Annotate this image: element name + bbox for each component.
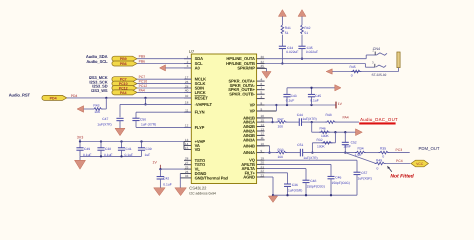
- ground arrow under SPKR/HP: [262, 72, 271, 79]
- wire PDM line: [303, 152, 357, 154]
- R35 value 0: [382, 155, 384, 159]
- C51 value: [303, 156, 317, 160]
- resistor R32: [322, 142, 333, 145]
- svg-text:33: 33: [185, 174, 189, 178]
- Not Fitted leader line: [387, 166, 392, 172]
- resistor R35: [379, 151, 390, 154]
- net label I2S3_MCK text: [89, 75, 108, 80]
- svg-text:1uF(X5R): 1uF(X5R): [358, 177, 372, 181]
- wire PC12 to chip: [137, 87, 191, 89]
- wire R41 stem top: [281, 16, 283, 25]
- R42 value 51: [304, 31, 308, 35]
- svg-text:C45: C45: [315, 94, 321, 98]
- net label I2S3_WS text: [91, 88, 108, 93]
- svg-text:15: 15: [185, 146, 189, 150]
- svg-text:VP: VP: [250, 103, 256, 108]
- ground arrow under DGND: [175, 188, 187, 196]
- wire VP join: [257, 104, 278, 111]
- svg-text:1uF(X7R): 1uF(X7R): [302, 117, 316, 121]
- power arrow above R42: [298, 10, 306, 17]
- svg-text:PB9: PB9: [139, 55, 146, 59]
- svg-text:PD4: PD4: [71, 94, 78, 98]
- svg-text:C52: C52: [351, 140, 357, 144]
- wire R41 to C34: [281, 35, 283, 47]
- resistor R43: [93, 108, 107, 111]
- C49 designator: [84, 147, 90, 151]
- ground arrow under C42: [154, 188, 166, 196]
- C39 value: [145, 153, 151, 157]
- svg-text:PB9: PB9: [120, 57, 127, 61]
- C47 designator: [102, 117, 108, 121]
- svg-text:PA4: PA4: [343, 116, 349, 120]
- wire VP rail: [265, 104, 336, 106]
- wire DGND join: [180, 174, 184, 188]
- svg-text:0: 0: [382, 155, 384, 159]
- net label PB9: [139, 55, 146, 59]
- svg-text:GND/Thermal Pad: GND/Thermal Pad: [195, 175, 229, 180]
- svg-text:Audio_RST: Audio_RST: [9, 93, 31, 98]
- jack CN4 tip contact: [375, 52, 387, 56]
- resistor R46: [319, 131, 330, 134]
- svg-text:CN4: CN4: [373, 47, 380, 51]
- net label I2S3_SCK text: [89, 79, 107, 84]
- power arrow R43 left: [77, 106, 93, 113]
- wire SDA: [137, 58, 191, 60]
- svg-text:AIN3A: AIN3A: [243, 137, 255, 142]
- svg-text:SPKR/HP: SPKR/HP: [237, 65, 255, 70]
- svg-text:PB6: PB6: [139, 59, 146, 63]
- svg-text:1uF (X7R): 1uF (X7R): [141, 122, 156, 126]
- port PDM bidirectional: [411, 160, 428, 167]
- svg-text:7: 7: [261, 86, 263, 90]
- svg-text:Audio_SCL: Audio_SCL: [86, 59, 108, 64]
- svg-text:0: 0: [377, 166, 379, 170]
- svg-text:11: 11: [261, 136, 264, 140]
- svg-text:0.022uF: 0.022uF: [306, 50, 318, 54]
- svg-text:9: 9: [261, 149, 263, 153]
- svg-text:PDM_OUT: PDM_OUT: [419, 146, 440, 151]
- capacitor C52: [342, 132, 349, 154]
- svg-text:51: 51: [285, 31, 289, 35]
- power net label 1V at VL: [152, 160, 160, 169]
- jack CN4 body: [397, 52, 400, 68]
- R47 designator: [278, 117, 284, 121]
- capacitor C43: [283, 88, 290, 105]
- wire PA4 to chip: [137, 91, 191, 93]
- R41 value 51: [285, 31, 289, 35]
- capacitor C35: [298, 46, 305, 48]
- U7 left pins with names and numbers: [184, 55, 229, 180]
- C45 designator: [315, 94, 321, 98]
- resistor R47: [276, 121, 287, 124]
- svg-text:51: 51: [304, 31, 308, 35]
- svg-text:15: 15: [261, 118, 265, 122]
- resistor R49: [375, 162, 386, 165]
- svg-text:12: 12: [261, 132, 265, 136]
- C44 value: [302, 117, 316, 121]
- svg-text:R45: R45: [350, 65, 356, 69]
- C49 value: [83, 153, 91, 157]
- svg-text:3: 3: [261, 95, 263, 99]
- wire VP cap top rail: [287, 87, 335, 89]
- C36 designator: [292, 183, 298, 187]
- svg-text:5: 5: [261, 91, 263, 95]
- power net label 3V3 at VA rail: [77, 135, 84, 141]
- svg-text:R49: R49: [376, 158, 382, 162]
- svg-text:AIN4A: AIN4A: [243, 150, 255, 155]
- C52 designator: [351, 140, 357, 144]
- capacitor C42: [157, 169, 165, 188]
- svg-text:100K: 100K: [317, 145, 326, 149]
- capacitor C38: [97, 142, 104, 157]
- capacitor C46 with wire: [265, 164, 335, 195]
- jack part number ST-225-02: [372, 73, 387, 77]
- svg-text:32: 32: [261, 60, 265, 64]
- power arrow sleeve left: [326, 69, 332, 74]
- capacitor C49: [76, 142, 83, 157]
- capacitor C34: [279, 46, 286, 48]
- net label PC3: [396, 148, 403, 152]
- jack CN4 ring contact: [375, 64, 386, 68]
- svg-text:VCC: VCC: [416, 162, 424, 166]
- C57 value: [358, 177, 372, 181]
- wire C44 to R48: [302, 121, 327, 123]
- svg-text:1uF(X7R): 1uF(X7R): [97, 122, 111, 126]
- svg-text:C42: C42: [163, 176, 169, 180]
- wire AIN4 join: [257, 146, 278, 154]
- wire bias line1: [312, 131, 356, 133]
- svg-text:U7: U7: [189, 49, 195, 54]
- R49 value 0: [377, 166, 379, 170]
- svg-text:PC10: PC10: [139, 80, 148, 84]
- wire jack sleeve: [332, 68, 398, 72]
- svg-text:28: 28: [185, 157, 189, 161]
- R35 designator: [380, 146, 386, 150]
- svg-text:35: 35: [261, 64, 265, 68]
- svg-text:150pF(C0G): 150pF(C0G): [332, 181, 350, 185]
- svg-text:PC4: PC4: [396, 159, 403, 163]
- U7 part name CS43L22: [189, 186, 207, 191]
- svg-text:R46: R46: [320, 126, 326, 130]
- C48 designator: [310, 179, 316, 183]
- net label PA4: [139, 88, 145, 92]
- svg-text:C46: C46: [335, 175, 341, 179]
- net label Audio_SDA text: [86, 54, 108, 59]
- svg-text:I2S3_WS: I2S3_WS: [91, 88, 108, 93]
- net label Audio_DAC_OUT: [360, 117, 398, 122]
- svg-text:PD4: PD4: [50, 96, 57, 100]
- svg-text:R32: R32: [317, 138, 323, 142]
- svg-text:100: 100: [278, 155, 284, 159]
- RESET pin overline: [195, 95, 206, 97]
- svg-text:PA4: PA4: [139, 88, 145, 92]
- wire R35 to PC3: [389, 152, 410, 154]
- capacitor C44: [299, 118, 301, 126]
- svg-text:10nF: 10nF: [343, 144, 351, 148]
- C39 designator: [146, 147, 152, 151]
- svg-text:AGND: AGND: [243, 175, 255, 180]
- svg-text:1V: 1V: [338, 102, 343, 106]
- C44 designator: [297, 113, 303, 117]
- power arrow above R41: [278, 10, 286, 17]
- svg-text:PA4: PA4: [120, 91, 127, 95]
- C34 value: [286, 50, 298, 54]
- wire bias line2: [311, 132, 335, 154]
- wire SPKR/HP down: [257, 68, 267, 71]
- C41 value: [125, 153, 133, 157]
- R47 value 100: [278, 124, 284, 128]
- net label I2S3_SD text: [92, 84, 108, 89]
- R48 designator: [326, 113, 332, 117]
- svg-text:C49: C49: [84, 147, 90, 151]
- svg-text:1V: 1V: [152, 160, 157, 164]
- svg-text:CS43L22: CS43L22: [189, 186, 207, 191]
- wire HP/LINE_OUTB to jack: [265, 64, 375, 68]
- wire A0: [166, 67, 192, 69]
- svg-text:R41: R41: [285, 26, 291, 30]
- power bar 1V: [336, 102, 343, 109]
- svg-text:C36: C36: [292, 183, 298, 187]
- net label PD4: [71, 94, 78, 98]
- wire Audio_RST to RESET pin: [67, 97, 192, 99]
- svg-text:PB6: PB6: [120, 62, 127, 66]
- svg-text:0.1uF: 0.1uF: [163, 183, 171, 187]
- net label PC12: [139, 84, 148, 88]
- power arrow bias right: [356, 129, 363, 136]
- svg-text:PC3: PC3: [396, 148, 403, 152]
- C45 value: [310, 99, 318, 103]
- wire SCL: [137, 63, 191, 65]
- svg-text:SPKR_OUTB-: SPKR_OUTB-: [229, 92, 255, 97]
- svg-text:VD: VD: [195, 147, 201, 152]
- resistor R33: [276, 151, 287, 154]
- svg-text:C51: C51: [297, 143, 303, 147]
- wire R49 to port: [385, 163, 411, 165]
- wire C35 to OUTA line: [301, 49, 303, 60]
- svg-text:100: 100: [278, 124, 284, 128]
- wire R47 to C44: [286, 121, 299, 123]
- C46 designator: [335, 175, 341, 179]
- C42 value: [163, 183, 171, 187]
- R33 value 100: [278, 155, 284, 159]
- C50 designator: [140, 117, 146, 121]
- resistor R34: [355, 151, 366, 154]
- net label Audio_RST text: [9, 93, 31, 98]
- svg-text:0.022uF: 0.022uF: [286, 50, 298, 54]
- svg-text:C48: C48: [310, 179, 316, 183]
- C36 value: [288, 188, 302, 192]
- capacitor C36 with wire: [265, 173, 291, 195]
- C38 designator: [105, 147, 111, 151]
- ground arrow under C47: [115, 128, 125, 135]
- svg-text:0: 0: [351, 74, 353, 78]
- wire R42 stem top: [301, 16, 303, 25]
- svg-text:C39: C39: [146, 147, 152, 151]
- wire VL: [159, 168, 184, 170]
- C47 value: [97, 122, 111, 126]
- port PC10: [112, 81, 137, 86]
- svg-text:FLYN: FLYN: [195, 110, 205, 115]
- op-amp U7 CS43L22 audio DAC body: [191, 54, 256, 184]
- svg-text:C47: C47: [102, 117, 108, 121]
- R32 designator: [317, 138, 323, 142]
- red underline bar: [359, 122, 395, 124]
- R43 value 10K: [94, 110, 101, 114]
- wire PC7 to chip: [137, 78, 191, 80]
- svg-text:10K: 10K: [94, 110, 101, 114]
- svg-text:LRCK: LRCK: [195, 90, 206, 95]
- capacitor C41: [118, 142, 125, 157]
- net label PC4: [396, 159, 403, 163]
- port PB9: [112, 56, 137, 61]
- svg-text:PC7: PC7: [139, 75, 146, 79]
- wire AGND down: [265, 177, 275, 196]
- ground arrow left rail: [75, 156, 86, 169]
- svg-text:R43: R43: [93, 103, 99, 107]
- svg-text:Audio_DAC_OUT: Audio_DAC_OUT: [360, 117, 398, 122]
- svg-text:Not Fitted: Not Fitted: [390, 174, 414, 180]
- capacitor C39: [138, 142, 145, 157]
- svg-text:A0: A0: [195, 65, 201, 70]
- Not Fitted note: [390, 174, 414, 180]
- svg-text:R35: R35: [380, 146, 386, 150]
- svg-text:R42: R42: [304, 26, 310, 30]
- jack pin number 1: [372, 49, 374, 53]
- power arrow A0 ground: [160, 65, 166, 71]
- R34 designator: [358, 146, 364, 150]
- svg-text:R34: R34: [358, 146, 364, 150]
- wire R33 to C51: [286, 152, 300, 154]
- C57 designator: [361, 171, 367, 175]
- net label PC7: [139, 75, 146, 79]
- port PA4: [112, 90, 137, 95]
- C51 designator: [297, 143, 303, 147]
- svg-text:25: 25: [185, 165, 189, 169]
- C50 value: [141, 122, 156, 126]
- svg-text:1uF(X7R): 1uF(X7R): [303, 156, 317, 160]
- port PC12: [112, 86, 137, 91]
- svg-text:150pF(C0G): 150pF(C0G): [307, 185, 325, 189]
- svg-text:4: 4: [261, 77, 263, 81]
- R34 value 1.5K: [355, 153, 363, 157]
- svg-text:C38: C38: [105, 147, 111, 151]
- svg-text:0.1uF: 0.1uF: [310, 99, 318, 103]
- svg-text:1uF: 1uF: [145, 153, 151, 157]
- wire AIN1 join: [257, 118, 278, 123]
- svg-text:C41: C41: [126, 147, 132, 151]
- R33 designator: [278, 148, 284, 152]
- port PD4: [42, 95, 67, 100]
- R42 designator: [304, 26, 310, 30]
- wire R34 to R35: [365, 152, 380, 154]
- svg-text:ST-225-02: ST-225-02: [372, 73, 387, 77]
- junctions on VA rail: [79, 140, 143, 142]
- svg-text:VP: VP: [250, 109, 256, 114]
- wire HP/LINE_OUTA to jack: [265, 55, 377, 59]
- wire diagonal to R49: [345, 153, 376, 164]
- svg-text:30: 30: [261, 55, 265, 59]
- power arrow VP rail right: [335, 85, 341, 91]
- wire FLYN top: [136, 112, 191, 118]
- port PB6: [112, 61, 137, 66]
- port PC7: [112, 77, 137, 82]
- ground arrow bottom rail: [268, 196, 277, 202]
- resistor R48: [325, 121, 336, 124]
- U7 note I2C address 0x94: [189, 191, 216, 195]
- svg-text:C57: C57: [361, 171, 367, 175]
- resistor R41: [281, 25, 284, 34]
- svg-text:1uF(X5R): 1uF(X5R): [288, 188, 302, 192]
- svg-text:C50: C50: [140, 117, 146, 121]
- junctions bottom rail: [286, 194, 332, 196]
- svg-text:8: 8: [261, 101, 263, 105]
- R49 designator: [376, 158, 382, 162]
- R45 value 0: [351, 74, 353, 78]
- net label PB6: [139, 59, 146, 63]
- svg-text:27: 27: [185, 161, 189, 165]
- capacitor C45: [308, 88, 315, 105]
- wire R42 to C35: [301, 35, 303, 47]
- U7 right pins with names and numbers: [226, 55, 265, 180]
- C35 value: [306, 50, 318, 54]
- capacitor C48 with wire: [265, 169, 310, 196]
- svg-text:I2C address 0x94: I2C address 0x94: [189, 191, 216, 195]
- C43 value: [286, 99, 294, 103]
- wire R48 to PA4: [336, 121, 360, 123]
- R32 value 100K: [317, 145, 326, 149]
- capacitor C57 with wire: [265, 160, 361, 195]
- C34 designator: [287, 46, 293, 50]
- wire C34 to OUTB line: [281, 49, 283, 65]
- capacitor C47: [116, 104, 123, 128]
- svg-text:PC12: PC12: [139, 84, 148, 88]
- wire cap ground rail: [80, 155, 142, 157]
- svg-text:R47: R47: [278, 117, 284, 121]
- R41 designator: [285, 26, 291, 30]
- svg-text:R48: R48: [326, 113, 332, 117]
- wire VA rail: [80, 142, 184, 150]
- svg-text:23: 23: [261, 173, 265, 177]
- net label PC10: [139, 80, 148, 84]
- wire R43 drop: [105, 98, 107, 109]
- svg-text:R33: R33: [278, 148, 284, 152]
- wire VHPFILT tap: [144, 98, 146, 106]
- wire node X drop: [311, 122, 313, 132]
- resistor R42: [301, 25, 304, 34]
- svg-text:RESET: RESET: [195, 95, 209, 100]
- net label Audio_SCL text: [86, 59, 108, 64]
- C35 designator: [307, 46, 313, 50]
- C46 value: [332, 181, 350, 185]
- R45 designator: [350, 65, 356, 69]
- net label PDM_OUT text: [419, 146, 440, 151]
- jack pin number 3: [372, 60, 374, 64]
- R46 value 100K: [321, 134, 330, 138]
- capacitor C51: [300, 149, 302, 157]
- C43 designator: [291, 94, 297, 98]
- svg-text:FLYP: FLYP: [195, 125, 205, 130]
- svg-text:14: 14: [261, 123, 265, 127]
- C52 value 10nF: [343, 144, 351, 148]
- wire VHPFILT rail: [120, 103, 191, 105]
- svg-text:13: 13: [261, 127, 265, 131]
- C48 value: [307, 185, 325, 189]
- wire bottom rail: [273, 194, 357, 196]
- wire PC10 to chip: [137, 83, 191, 85]
- svg-text:3V3: 3V3: [77, 135, 84, 139]
- C42 designator: [163, 176, 169, 180]
- C38 value: [104, 153, 112, 157]
